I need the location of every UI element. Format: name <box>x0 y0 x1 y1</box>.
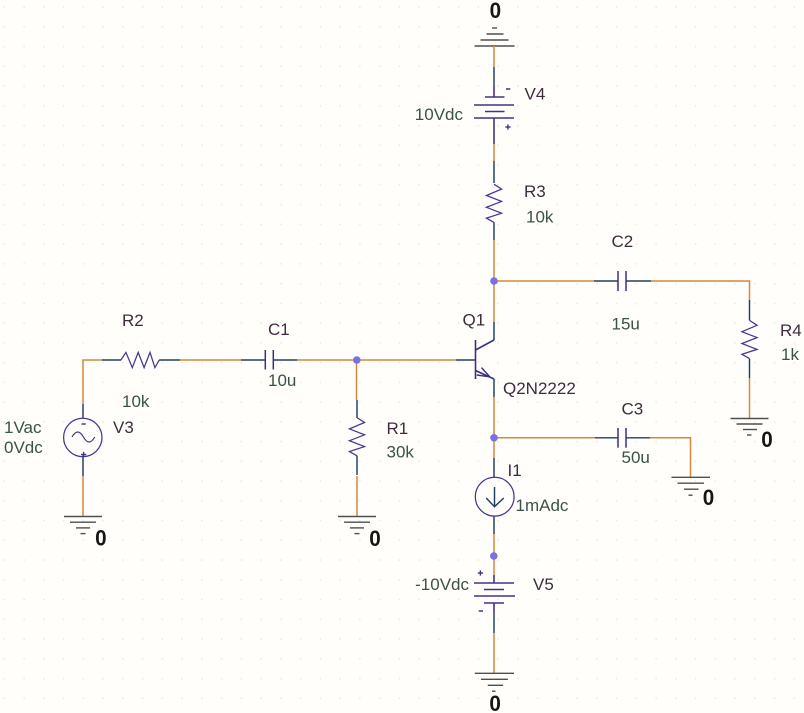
svg-text:10u: 10u <box>268 371 296 390</box>
node junction (collector) <box>490 277 498 285</box>
pin R3 top <box>493 161 495 183</box>
pin I1 bottom <box>493 517 495 535</box>
svg-text:0: 0 <box>95 526 107 551</box>
wire <box>493 633 495 673</box>
ground (C3) <box>672 477 711 495</box>
svg-text:30k: 30k <box>387 443 415 462</box>
pin R4 bottom <box>749 359 751 378</box>
wire <box>180 359 241 361</box>
pin R2 right <box>159 359 180 361</box>
pin Q1 emitter <box>493 379 495 397</box>
svg-text:V4: V4 <box>525 85 546 104</box>
pin R1 bottom <box>356 456 358 475</box>
svg-text:1k: 1k <box>781 345 799 364</box>
svg-text:1mAdc: 1mAdc <box>516 496 569 515</box>
node junction (emitter) <box>490 434 498 442</box>
svg-text:Q2N2222: Q2N2222 <box>503 379 576 398</box>
ground (R4) <box>731 419 769 436</box>
svg-text:0: 0 <box>490 0 502 23</box>
wire <box>493 144 495 161</box>
svg-text:0: 0 <box>369 526 381 551</box>
pin Q1 base <box>456 359 476 361</box>
pin V4 top <box>493 67 495 86</box>
svg-text:-10Vdc: -10Vdc <box>415 575 469 594</box>
svg-text:0: 0 <box>489 691 501 713</box>
svg-text:R1: R1 <box>387 419 409 438</box>
emitter node row: wire <box>493 397 495 438</box>
left branch: wire from V3 to R2 <box>83 360 102 404</box>
svg-text:0: 0 <box>761 427 773 452</box>
pin R2 left <box>102 359 121 361</box>
capacitor C1 <box>241 359 265 361</box>
wire <box>494 280 594 282</box>
wire <box>493 46 495 67</box>
svg-text:50u: 50u <box>622 448 650 467</box>
svg-text:1Vac: 1Vac <box>4 418 42 437</box>
node junction (base node) <box>353 356 361 364</box>
svg-text:R4: R4 <box>780 321 802 340</box>
svg-text:10Vdc: 10Vdc <box>415 105 464 124</box>
wire <box>493 556 495 575</box>
resistor R3 <box>486 184 501 222</box>
ground (V3) <box>64 517 102 534</box>
battery V5 <box>474 570 515 612</box>
svg-text:0Vdc: 0Vdc <box>4 438 43 457</box>
wire <box>356 360 358 400</box>
pin R1 top <box>356 400 358 418</box>
wire <box>297 359 456 361</box>
resistor R4 <box>742 320 757 358</box>
pin R4 top <box>749 300 751 320</box>
wire <box>493 534 495 556</box>
wire <box>650 438 691 477</box>
ground (bottom) <box>475 673 514 691</box>
wire <box>493 240 495 322</box>
svg-text:I1: I1 <box>508 461 522 480</box>
svg-text:15u: 15u <box>612 315 640 334</box>
svg-text:10k: 10k <box>526 208 554 227</box>
wire <box>356 476 358 516</box>
ground (R1) <box>338 517 376 534</box>
svg-text:R3: R3 <box>524 182 546 201</box>
pin Q1 collector <box>493 322 495 340</box>
pin I1 top <box>493 458 495 478</box>
capacitor C2 <box>594 280 618 282</box>
ground (top, for V4 minus) <box>475 28 515 46</box>
svg-text:V5: V5 <box>533 575 554 594</box>
wire <box>749 378 751 418</box>
pin R3 bottom <box>493 222 495 240</box>
svg-text:V3: V3 <box>113 418 134 437</box>
wire <box>494 437 595 439</box>
node junction (V5 top) <box>490 552 498 560</box>
svg-text:C3: C3 <box>622 400 644 419</box>
svg-text:0: 0 <box>703 485 715 510</box>
svg-text:R2: R2 <box>122 311 144 330</box>
resistor R1 <box>349 418 364 456</box>
capacitor C3 <box>595 437 618 439</box>
source V3 <box>82 404 84 419</box>
svg-text:10k: 10k <box>122 392 150 411</box>
wire emitter to I1 <box>493 438 495 458</box>
current source I1 <box>475 477 514 516</box>
svg-text:C1: C1 <box>268 320 290 339</box>
svg-text:Q1: Q1 <box>463 311 486 330</box>
transistor Q1 <box>476 340 495 379</box>
wire <box>651 281 750 300</box>
pin V5 bottom <box>493 612 495 633</box>
resistor R2 <box>121 352 159 367</box>
svg-text:C2: C2 <box>612 232 634 251</box>
battery V4 <box>474 86 514 144</box>
